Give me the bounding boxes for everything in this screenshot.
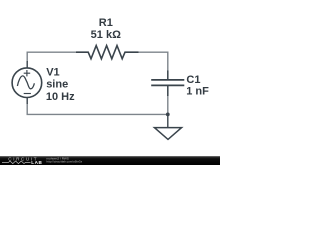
svg-text:V1: V1	[46, 67, 59, 79]
svg-text:51 kΩ: 51 kΩ	[91, 29, 121, 41]
wire top-right from resistor right lead to C1 top	[139, 52, 168, 71]
svg-text:sine: sine	[46, 79, 68, 91]
junction node at bottom rail	[166, 113, 170, 117]
wire top-left from V1 top to resistor left lead	[27, 52, 76, 61]
svg-text:LAB: LAB	[31, 160, 42, 165]
wire C1 bottom to junction	[167, 96, 169, 115]
voltage source V1	[12, 61, 42, 104]
svg-text:C1: C1	[186, 74, 200, 86]
svg-text:10 Hz: 10 Hz	[46, 91, 75, 103]
wire bottom from V1 bottom to junction	[27, 104, 168, 115]
ground	[154, 114, 181, 139]
svg-text:http://circuitlab.com/c6br3z: http://circuitlab.com/c6br3z	[46, 159, 82, 163]
svg-text:R1: R1	[99, 17, 113, 29]
resistor R1	[76, 46, 139, 59]
CircuitLab logo zigzag	[2, 161, 31, 164]
svg-text:1 nF: 1 nF	[186, 86, 209, 98]
capacitor C1	[151, 71, 184, 97]
watermark bar	[0, 156, 220, 165]
